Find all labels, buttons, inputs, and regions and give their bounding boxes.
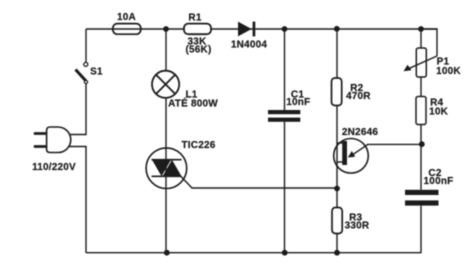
svg-text:470R: 470R [346,91,371,102]
svg-text:100K: 100K [436,66,461,77]
svg-text:2N2646: 2N2646 [342,127,378,138]
svg-text:100nF: 100nF [424,176,454,187]
svg-text:S1: S1 [90,67,103,78]
svg-text:(56K): (56K) [185,45,211,56]
svg-text:330R: 330R [345,221,370,232]
svg-text:TIC226: TIC226 [182,140,216,151]
svg-text:10nF: 10nF [286,97,310,108]
svg-text:10A: 10A [117,12,136,23]
svg-text:ATÉ 800W: ATÉ 800W [168,97,218,110]
svg-text:110/220V: 110/220V [32,162,76,173]
svg-text:1N4004: 1N4004 [231,40,267,51]
svg-text:R1: R1 [188,13,201,24]
svg-text:10K: 10K [429,107,449,118]
